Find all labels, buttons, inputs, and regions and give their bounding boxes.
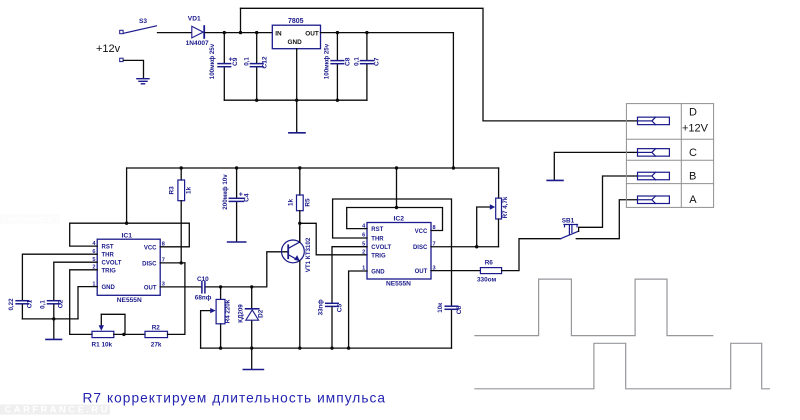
svg-text:+12v: +12v	[96, 43, 121, 55]
svg-text:GND: GND	[288, 39, 303, 46]
wire IC1 RST/VCC loop	[70, 223, 190, 247]
svg-text:CVOLT: CVOLT	[371, 245, 391, 251]
wire IC1 DISC stub	[160, 262, 185, 264]
wire lower terminal to ground	[124, 60, 144, 78]
svg-text:2: 2	[362, 250, 365, 256]
capacitor C1 0,22	[16, 301, 29, 304]
wire R6 to SB1	[502, 239, 561, 271]
svg-text:S3: S3	[139, 18, 147, 25]
svg-text:R7 4,7k: R7 4,7k	[502, 196, 509, 218]
svg-text:1k: 1k	[186, 186, 193, 194]
svg-text:+: +	[239, 192, 243, 199]
wire connector C to ground	[554, 152, 637, 179]
svg-text:C: C	[689, 147, 697, 159]
waveform lower	[475, 343, 770, 389]
wire IC1 GND pin to rail	[78, 287, 97, 319]
wire R5 to collector	[299, 211, 301, 242]
svg-text:DISC: DISC	[142, 261, 157, 267]
svg-text:R4 220k: R4 220k	[224, 299, 231, 323]
connector labels D +12V C B A	[682, 107, 709, 207]
node terminal +12v upper	[120, 30, 123, 33]
capacitor C8 100мкф 25v	[336, 33, 338, 101]
svg-text:330ом: 330ом	[477, 277, 496, 284]
svg-text:A: A	[689, 194, 697, 206]
svg-text:0,22: 0,22	[8, 298, 15, 311]
ground (7805)	[289, 132, 305, 134]
node junction C7	[365, 31, 368, 34]
wire IC2 CVOLT to C5	[332, 247, 367, 303]
switch S3	[124, 26, 157, 33]
svg-text:GND: GND	[371, 270, 385, 276]
watermark bottom-left	[0, 405, 110, 416]
wire IC2 DISC stub to R7	[431, 246, 499, 248]
ground (mid rail)	[251, 348, 253, 369]
svg-text:C6: C6	[456, 305, 463, 314]
svg-text:C9: C9	[232, 57, 239, 66]
wire 12V-to-5V drop into lower rail	[452, 33, 454, 168]
svg-text:CARFRANCE.RU: CARFRANCE.RU	[2, 215, 67, 224]
svg-text:THR: THR	[102, 253, 115, 259]
svg-text:+12V: +12V	[682, 123, 709, 135]
svg-text:C8: C8	[345, 57, 352, 66]
svg-text:R5: R5	[304, 198, 311, 207]
svg-text:IC2: IC2	[394, 216, 405, 223]
node junction top-rail tap	[240, 8, 242, 32]
svg-text:0,1: 0,1	[40, 300, 47, 309]
svg-text:VT1 КТ3102: VT1 КТ3102	[305, 237, 312, 272]
resistor R5 1k	[299, 168, 301, 195]
svg-text:100мкф 25v: 100мкф 25v	[323, 43, 330, 79]
svg-text:7805: 7805	[288, 18, 304, 25]
wire left ground rail	[22, 318, 78, 320]
node R4 top junction	[219, 285, 222, 288]
wire IC2 GND to rail	[349, 271, 367, 348]
svg-text:D2: D2	[258, 309, 265, 318]
svg-text:VCC: VCC	[415, 229, 428, 235]
wire 5V rail	[127, 167, 499, 169]
svg-text:R7 корректируем длительность и: R7 корректируем длительность импульса	[83, 391, 386, 406]
wire 7805 OUT rail	[321, 32, 454, 34]
capacitor C10 68пф	[202, 282, 205, 293]
svg-text:1N4007: 1N4007	[186, 40, 209, 47]
svg-text:R2: R2	[152, 325, 161, 332]
svg-text:R3: R3	[169, 186, 176, 195]
svg-text:OUT: OUT	[305, 30, 319, 37]
capacitor C2 0,1	[48, 301, 61, 304]
wire IC2 OUT to R6	[431, 270, 480, 272]
wire SB1 NO contact to connector B	[579, 176, 638, 231]
wire mid ground rail	[201, 347, 452, 349]
resistor R6 330ом	[480, 268, 501, 274]
capacitor C5 33пф	[326, 303, 339, 306]
wire capacitor bottom rail	[224, 99, 367, 101]
node junction C8	[336, 31, 339, 34]
svg-text:B: B	[689, 171, 696, 183]
svg-text:C2: C2	[58, 299, 65, 308]
wire R1 to R2	[114, 333, 145, 335]
connector pin C	[638, 149, 670, 157]
connector block table	[626, 104, 713, 208]
wire 7805 GND drop	[296, 49, 298, 133]
wire top +12V rail to connector D	[241, 8, 638, 121]
resistor R2 27k	[145, 331, 168, 337]
wire collector to IC2 TRIG	[300, 223, 367, 255]
connector pin B	[638, 172, 670, 180]
connector pin D	[638, 117, 670, 125]
transistor VT1 KT3102	[282, 240, 305, 263]
node terminal +12v lower	[120, 58, 123, 61]
svg-text:CARFRANCE.RU: CARFRANCE.RU	[5, 405, 110, 416]
svg-text:C4: C4	[243, 193, 250, 202]
svg-text:NE555N: NE555N	[386, 280, 411, 287]
svg-text:RST: RST	[102, 245, 114, 251]
wire IC2 RST/VCC inner loop	[347, 208, 443, 231]
connector pin A	[638, 196, 670, 204]
svg-text:IN: IN	[275, 30, 282, 37]
svg-text:1k: 1k	[287, 199, 294, 207]
svg-text:C10: C10	[197, 276, 209, 283]
svg-text:R1 10k: R1 10k	[92, 341, 113, 348]
potentiometer R7 4,7k	[498, 168, 500, 198]
ground (connector C)	[547, 179, 563, 181]
node junction C9	[223, 31, 226, 34]
watermark mid-left (very faint)	[0, 215, 67, 225]
wire S3 to VD1	[158, 32, 192, 34]
capacitor C7 0,1	[366, 33, 368, 101]
ground (C4 bar)	[228, 241, 246, 243]
svg-text:27k: 27k	[151, 341, 162, 348]
svg-text:CVOLT: CVOLT	[102, 261, 122, 267]
wire R2 to IC1 DISC	[168, 263, 185, 335]
svg-text:C7: C7	[374, 57, 381, 66]
wire IC1 OUT line	[160, 252, 288, 287]
ground (input)	[137, 79, 149, 84]
op-amp/timer IC1 NE555N box	[97, 239, 160, 295]
svg-text:IC1: IC1	[122, 232, 133, 239]
capacitor C12 0,1	[256, 33, 258, 101]
svg-text:КД209: КД209	[238, 304, 245, 323]
svg-text:VCC: VCC	[144, 245, 157, 251]
svg-text:200мкф 10v: 200мкф 10v	[222, 174, 229, 210]
wire SB1 NC contact to connector A	[576, 200, 637, 239]
potentiometer R4 220k	[220, 287, 222, 348]
svg-text:RST: RST	[371, 227, 383, 233]
svg-text:GND: GND	[102, 285, 116, 291]
svg-text:R6: R6	[485, 260, 494, 267]
diode VD1 1N4007	[192, 26, 204, 38]
svg-text:OUT: OUT	[415, 269, 428, 275]
svg-text:SB1: SB1	[562, 217, 575, 224]
svg-text:33пф: 33пф	[317, 299, 324, 316]
svg-text:C12: C12	[262, 56, 269, 68]
regulator U1 7805	[272, 25, 320, 49]
svg-text:TRIG: TRIG	[102, 268, 117, 274]
wire R3 to IC1 DISC	[180, 201, 182, 263]
svg-text:C5: C5	[336, 303, 343, 312]
potentiometer R1 10k	[92, 331, 114, 337]
svg-text:C1: C1	[26, 299, 33, 308]
op-amp/timer IC2 NE555N box	[367, 223, 431, 280]
wire IC1 CVOLT to C2	[54, 262, 97, 300]
svg-text:68пф: 68пф	[195, 295, 212, 302]
svg-text:OUT: OUT	[144, 285, 157, 291]
capacitor C6 10к	[445, 306, 458, 309]
resistor R3 1k	[180, 168, 182, 180]
waveform upper	[475, 279, 713, 336]
node collector junction	[298, 222, 301, 225]
wire VD1 to 7805 IN	[205, 32, 272, 34]
svg-text:0,1: 0,1	[243, 57, 250, 66]
node D2 top junction	[250, 285, 253, 288]
wire IC1 THR to C1	[22, 254, 97, 300]
wire 5V feed to IC2 loop	[396, 168, 398, 208]
svg-text:THR: THR	[371, 237, 384, 243]
node junction C12	[255, 31, 258, 34]
ground (left rail)	[53, 319, 55, 339]
diode D2 КД209	[251, 287, 253, 348]
svg-text:DISC: DISC	[413, 245, 428, 251]
wire IC2 THR outer loop to C6	[333, 199, 452, 306]
svg-text:100мкф 25v: 100мкф 25v	[209, 43, 216, 79]
svg-text:NE555N: NE555N	[117, 297, 142, 304]
svg-text:TRIG: TRIG	[371, 253, 386, 259]
svg-text:VD1: VD1	[188, 16, 201, 23]
capacitor C9 100мкф 25v	[223, 33, 225, 101]
wire IC1 TRIG to R1	[70, 270, 98, 335]
wire 5V feed to loop	[126, 168, 128, 223]
svg-text:D: D	[689, 107, 697, 119]
svg-text:10к: 10к	[437, 302, 444, 313]
svg-text:0,1: 0,1	[354, 57, 361, 66]
capacitor C4 200мкф 10v	[236, 168, 238, 242]
